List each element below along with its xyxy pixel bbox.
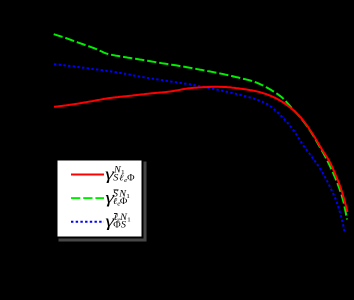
svg-text:Φ: Φ [113,220,120,230]
svg-text:S: S [113,173,118,183]
svg-text:1: 1 [127,217,131,224]
svg-text:Φ: Φ [127,173,134,183]
svg-text:Φ: Φ [120,197,127,207]
svg-text:ℓ: ℓ [119,173,123,183]
svg-text:S: S [121,220,126,230]
